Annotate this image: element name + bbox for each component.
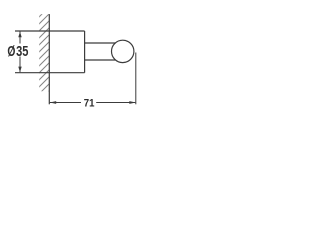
dim line 71 left segment [50,102,81,104]
svg-text:Ø: Ø [7,44,15,60]
flange bottom edge with extension line to dim [15,72,85,74]
rod bottom edge [85,59,116,61]
arrow down Ø35 [18,67,21,73]
rod top edge [85,42,116,44]
wall face line / left extension of dim 71 [48,14,50,104]
dim line 71 right segment [96,102,135,104]
svg-text:71: 71 [84,98,95,110]
dim line Ø35 upper segment [19,32,21,44]
arrow up Ø35 [18,32,21,38]
svg-text:35: 35 [16,44,28,60]
flange top edge with extension line to dim [15,30,85,32]
wall hatch [33,0,63,107]
right extension line at ball edge [135,53,137,105]
ball knob [112,40,134,62]
dim line Ø35 lower segment [19,57,21,73]
flange right edge [84,31,86,73]
arrow right 71 [129,101,136,104]
arrow left 71 [50,101,57,104]
